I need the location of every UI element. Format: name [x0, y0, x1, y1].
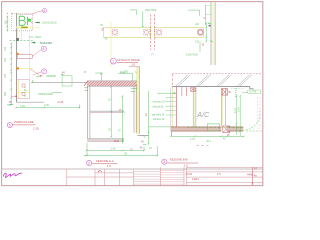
svg-text:1.05: 1.05: [20, 105, 25, 108]
title block mid rule y177: [67, 176, 134, 178]
svg-text:SEZIONE A-A: SEZIONE A-A: [96, 159, 114, 163]
grey top edge: [17, 14, 32, 16]
green pad outline: [207, 124, 219, 131]
svg-text:M16x180: M16x180: [40, 41, 52, 45]
leader low: [52, 92, 62, 94]
slab hatch pair 2: [197, 75, 209, 86]
green extension line: [204, 5, 206, 25]
svg-text:120: 120: [4, 46, 7, 51]
green plate on wall: [205, 6, 210, 15]
detail 3 underline: [167, 162, 198, 164]
leader corner 1: [95, 73, 101, 81]
svg-text:+2.700: +2.700: [249, 91, 257, 94]
red dashed detail box: [12, 14, 33, 31]
dimension chain left: [6, 16, 8, 32]
red stiffener 1: [22, 84, 25, 87]
drain chase: [220, 88, 222, 126]
green corner dot: [122, 140, 123, 141]
svg-text:1: 1: [112, 60, 114, 64]
bracket detail box: [16, 80, 29, 99]
detail 2: bottom middle box: [84, 67, 209, 169]
annotation arrow 3: [31, 42, 36, 44]
leader to callout 7: [33, 72, 42, 75]
green dotted row: [231, 87, 244, 89]
bottom dim line: [170, 135, 245, 137]
slab hatch pair 3: [217, 75, 229, 86]
svg-text:450: 450: [4, 57, 7, 62]
yellow inner vertical: [17, 80, 19, 98]
bolt group 1: [112, 30, 118, 36]
title block right rules: [187, 166, 264, 168]
svg-text:3.00: 3.00: [44, 104, 49, 107]
green tick bottom right 1: [143, 135, 146, 137]
green corner mark 1: [130, 10, 136, 15]
floor band right: [227, 127, 244, 131]
upper support bracket: [222, 89, 227, 96]
svg-text:SPESSORE: SPESSORE: [38, 92, 53, 96]
red anchor arrow: [40, 75, 44, 77]
callout circle 6: [41, 46, 46, 51]
callout circle 4: [42, 9, 46, 13]
svg-text:+0.45: +0.45: [57, 101, 64, 104]
title block: [2, 167, 263, 186]
leader to callout: [32, 11, 42, 14]
svg-text:SEZIONE B-B: SEZIONE B-B: [170, 158, 188, 162]
detail C: bottom-left box: [7, 101, 81, 130]
left wall outer: [169, 88, 171, 132]
svg-text:120: 120: [195, 40, 200, 43]
svg-text:3: 3: [163, 160, 165, 164]
green arrow leader: [158, 92, 176, 94]
hanger rods: [181, 87, 183, 96]
detail B: mid-left elevation: [4, 41, 87, 105]
detail 2 title circle: [87, 161, 92, 166]
svg-text:pannello 30: pannello 30: [152, 114, 165, 117]
partition head bracket: [191, 88, 196, 92]
svg-text:1:5: 1:5: [217, 172, 221, 176]
svg-text:intonaco 15: intonaco 15: [153, 100, 166, 103]
callout circle 7: [42, 69, 47, 74]
dashed left edge: [171, 74, 173, 128]
lower support bracket: [223, 126, 230, 133]
green dots mid wall: [210, 40, 211, 41]
mid ledge: [90, 110, 123, 112]
detail 2 underline: [92, 163, 117, 165]
title block divider x252.5: [252, 167, 254, 185]
outer yellow jamb: [137, 67, 139, 134]
yellow wall lines below: [17, 28, 19, 40]
green wall dots: [208, 23, 209, 24]
svg-text:40.1: 40.1: [206, 140, 211, 143]
svg-text:2.10: 2.10: [234, 108, 237, 113]
break line 2: [30, 69, 39, 75]
grey node blob: [16, 38, 19, 41]
pink tick: [203, 17, 206, 19]
band end ticks: [84, 81, 87, 86]
green dot column: [235, 88, 236, 97]
centerline pair: [150, 14, 152, 50]
svg-text:10.03: 10.03: [186, 172, 193, 176]
dark anchor dot: [209, 25, 211, 27]
ticks under band right: [131, 87, 137, 89]
end bolt circle: [198, 30, 203, 35]
plate corner ticks: [61, 74, 63, 76]
door swing arc: [244, 111, 260, 131]
stray dashed mark: [196, 145, 209, 147]
left wall inner face: [176, 87, 178, 129]
right dim line 2: [239, 95, 241, 136]
interior dim line 1: [110, 86, 112, 137]
beam outline left segment: [103, 27, 150, 37]
beam outline right segment: [155, 27, 204, 37]
title block divider x95: [94, 169, 96, 186]
svg-text:2.40: 2.40: [238, 107, 241, 112]
svg-text:1:5: 1:5: [131, 63, 135, 67]
svg-text:1:25: 1:25: [33, 126, 39, 130]
bottom dim line A: [86, 147, 146, 152]
green plate outline: [62, 76, 72, 86]
svg-text:100x100x10: 100x100x10: [42, 21, 57, 25]
signature: [3, 173, 22, 177]
wall band: [211, 2, 215, 65]
svg-text:250: 250: [124, 71, 129, 74]
detail 1 underline: [117, 61, 138, 63]
floor band left: [171, 127, 221, 131]
svg-text:2: 2: [88, 162, 90, 166]
annotation dash 2: [29, 36, 34, 38]
bolt 1: [16, 53, 19, 55]
bottom dim line B: [84, 143, 159, 156]
svg-text:lamiera 10: lamiera 10: [153, 118, 165, 121]
detail 1 title circle: [111, 58, 117, 64]
olive bar: [21, 27, 27, 29]
ledge green tick: [123, 110, 125, 113]
svg-text:1.45: 1.45: [111, 148, 116, 151]
svg-text:1240: 1240: [114, 140, 120, 143]
edge tick marks: [31, 18, 32, 20]
revision rows block 1: [134, 172, 161, 185]
slab hatch pair 1: [176, 75, 252, 86]
green tick bottom right 2: [143, 144, 146, 146]
right wall: [203, 2, 215, 65]
yellow inner shelf: [18, 91, 29, 93]
bolt group 2: [144, 30, 150, 36]
dashed slab top line: [172, 73, 261, 75]
bolt group 3: [156, 30, 162, 36]
jamb foot line: [137, 134, 148, 136]
svg-text:6: 6: [43, 47, 45, 51]
red stiffener 2: [22, 92, 25, 95]
A/C closet section: [152, 74, 262, 143]
title block mid rule y172.9: [95, 172, 134, 174]
svg-text:HEB200: HEB200: [46, 74, 57, 78]
bolt 2: [16, 67, 19, 69]
door leaf dashed: [259, 97, 261, 129]
right dim line 1: [236, 95, 238, 135]
bolt group 4: [198, 30, 204, 36]
svg-text:A: A: [252, 182, 254, 186]
slab hatch pair 4: [238, 75, 250, 86]
svg-text:14: 14: [254, 167, 257, 171]
detail 3 title circle: [162, 159, 167, 164]
layer note row 3: [166, 105, 177, 107]
svg-text:150x75x9: 150x75x9: [145, 8, 157, 12]
ticks under band left: [85, 87, 89, 89]
svg-text:blocchi 80: blocchi 80: [153, 105, 164, 108]
break line 1: [32, 50, 41, 57]
svg-text:1:5: 1:5: [107, 164, 111, 168]
long green extension: [147, 91, 149, 144]
leader corner 2: [119, 73, 133, 80]
top beam plan: [100, 8, 207, 75]
leader above beam: [142, 11, 144, 27]
green bolt dots: [24, 89, 25, 90]
anchor plate letter B: [19, 16, 25, 25]
hatched beam band: [87, 81, 137, 86]
threshold dashed: [246, 130, 262, 132]
yellow ledger line: [19, 67, 33, 69]
svg-text:PARTICOLARE: PARTICOLARE: [14, 120, 34, 124]
below-beam leader: [199, 42, 201, 52]
svg-text:160: 160: [4, 73, 7, 78]
yellow base strip: [16, 26, 29, 28]
svg-text:2022: 2022: [35, 35, 41, 39]
slab soffit line: [172, 87, 254, 89]
annotation arrow 1: [34, 22, 39, 24]
detail 5 underline: [12, 124, 35, 126]
right wall: [133, 86, 135, 133]
red arrow into box: [14, 96, 17, 98]
title block divider x104.5: [104, 169, 106, 186]
svg-text:5: 5: [9, 123, 11, 127]
svg-text:4408: 4408: [247, 172, 253, 176]
right end dim line: [205, 22, 207, 42]
title block divider x66.8: [66, 169, 68, 186]
stamp mark cell 2: [98, 171, 102, 173]
left wall core: [171, 88, 173, 129]
sheet border frame: [2, 2, 263, 186]
svg-text:500: 500: [4, 91, 7, 96]
green node dots: [7, 13, 8, 14]
svg-text:4: 4: [43, 9, 45, 13]
red edge tick: [170, 132, 172, 137]
svg-text:120: 120: [195, 23, 200, 26]
green tick on ground: [32, 80, 34, 82]
svg-text:1:5: 1:5: [184, 164, 188, 168]
dashed level line: [187, 127, 244, 129]
detail A: top-left plan: [4, 9, 57, 103]
level annotation right: [243, 91, 249, 93]
svg-text:ATTACCO TRAVE: ATTACCO TRAVE: [117, 58, 140, 62]
title block divider x160.3: [159, 167, 161, 185]
title block divider x133.5: [133, 169, 135, 186]
yellow axis line: [110, 22, 112, 67]
green dots pair: [37, 76, 38, 77]
beam end box: [17, 55, 32, 59]
interior dim line 2: [121, 95, 123, 143]
bottom slab band: [87, 139, 124, 141]
svg-text:1.70: 1.70: [190, 138, 195, 141]
svg-text:11111: 11111: [192, 177, 199, 181]
svg-text:150: 150: [4, 20, 7, 25]
ground line: [31, 82, 87, 84]
level tick: [7, 104, 14, 106]
svg-text:150x75x9: 150x75x9: [186, 52, 198, 56]
title block double divider x184: [183, 167, 185, 185]
dimension chain: [10, 43, 12, 106]
svg-text:A/C: A/C: [196, 110, 210, 119]
green corner mark 2: [188, 10, 199, 16]
angle leg vertical: [27, 17, 29, 25]
green dashed axis: [10, 39, 34, 41]
title block divider x119.5: [119, 169, 121, 186]
detail 5 title circle: [7, 122, 12, 127]
revision rows block 2: [160, 170, 184, 184]
column grey line: [16, 14, 18, 102]
bottom dim line: [15, 105, 81, 109]
yellow tick: [135, 71, 137, 73]
svg-text:7: 7: [43, 70, 45, 74]
yellow wall face: [29, 41, 31, 80]
title block top line: [2, 168, 263, 170]
green gusset block: [28, 19, 31, 22]
partition wall: [192, 88, 194, 129]
left wall: [87, 86, 89, 141]
base grey line: [17, 101, 45, 103]
green link line: [148, 126, 176, 128]
